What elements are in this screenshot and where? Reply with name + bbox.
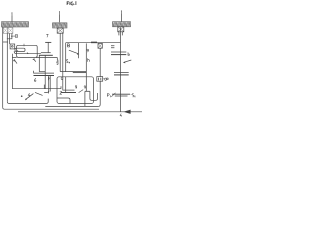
rounded frame RR1 xyxy=(17,45,38,57)
planet shaft a xyxy=(38,55,40,72)
output gear bar P lower xyxy=(115,95,128,97)
clutch box inner mark xyxy=(12,46,14,48)
U right leg to clutch shaft xyxy=(98,81,100,106)
arrow mark under RR1 xyxy=(32,58,34,60)
housing block C (top right) xyxy=(113,22,131,27)
outer bottom housing line xyxy=(3,107,99,109)
tick arrow up xyxy=(47,91,50,94)
leader diagonal 2 xyxy=(35,92,43,95)
label 1 (block A) xyxy=(11,13,14,16)
brake box A1 with X xyxy=(3,28,7,34)
bearing cap on x86 shaft xyxy=(85,90,90,92)
carrier drop 2 xyxy=(49,75,51,91)
center shaft s2 xyxy=(62,33,64,90)
label b right of bars xyxy=(128,52,130,55)
U left leg xyxy=(84,91,86,106)
input gear T bar xyxy=(45,41,51,43)
leader diagonal from 8 xyxy=(69,50,79,54)
tick on RR1 top xyxy=(23,44,25,46)
junction tick xyxy=(27,53,28,54)
short shaft to node xyxy=(11,33,13,35)
dash before S3 xyxy=(130,94,133,96)
housing block A (top left) xyxy=(2,22,29,27)
arrow tail xyxy=(34,59,36,61)
input gear T stem xyxy=(47,42,49,52)
leader diagonal right xyxy=(124,60,132,62)
link shaft to RR1 bottom xyxy=(12,56,16,58)
arrowhead k xyxy=(13,60,15,62)
big frame left edge xyxy=(65,43,67,72)
planet shaft b xyxy=(44,55,46,89)
thick junction segment xyxy=(91,41,97,43)
marks in label box xyxy=(98,78,100,81)
clutch C legs xyxy=(119,32,122,36)
dash to label o xyxy=(103,78,104,80)
carrier link y71.6 xyxy=(60,71,86,73)
label h right of shaft xyxy=(88,58,90,61)
label h left xyxy=(48,77,50,80)
inner cup xyxy=(90,91,98,100)
label 9 in box xyxy=(84,86,86,89)
inner vertical x78.5 xyxy=(78,43,80,59)
housing block B (top center) xyxy=(53,23,68,28)
dash to label B xyxy=(13,35,15,37)
long coupling line y42.7 xyxy=(66,42,121,44)
carrier drop 1 xyxy=(44,75,49,92)
brake box A2 with X xyxy=(8,28,13,34)
interior gear bar lower xyxy=(61,92,76,94)
leader diagonal lower-left xyxy=(26,94,34,100)
small clutch box 10 xyxy=(10,44,15,49)
hook down at end xyxy=(56,58,58,61)
right main shaft xyxy=(120,27,122,111)
gear bar pair 3 lower xyxy=(111,54,126,56)
label P3 xyxy=(107,94,110,98)
tick above RR2 xyxy=(17,50,19,51)
label 5 xyxy=(57,62,59,65)
feed to clutch box 10 xyxy=(9,33,11,44)
output arrowhead xyxy=(124,110,131,114)
leader to P bar xyxy=(111,93,115,97)
link line y57.8 xyxy=(36,57,57,59)
label box 10/11 xyxy=(97,77,103,82)
clutch shaft down xyxy=(99,48,101,76)
gear bar pair 3 upper xyxy=(111,51,126,53)
vertical link x86 xyxy=(85,43,87,91)
lead 1 above block A xyxy=(11,15,13,21)
left mid shaft xyxy=(11,54,13,89)
node dot lower-left xyxy=(21,95,23,97)
left outer shaft xyxy=(2,27,4,107)
lead above block C xyxy=(121,13,123,21)
long link line y53.7 xyxy=(14,51,41,54)
horizontal link y88.7 xyxy=(12,88,61,90)
label 12 dashes xyxy=(111,46,114,48)
gear bar pair 4 lower xyxy=(114,74,129,76)
lower cluster big box xyxy=(57,77,94,104)
clutch box under block B xyxy=(57,28,63,33)
interior gear bar upper xyxy=(63,89,75,91)
label o xyxy=(105,78,107,80)
label 2 xyxy=(60,91,62,94)
link from node down-left xyxy=(7,37,12,39)
clutch box on coupling line xyxy=(98,43,102,48)
label B xyxy=(16,34,18,37)
tick at bars2 left xyxy=(33,71,35,74)
interior corner box xyxy=(57,98,70,104)
output gear bar P upper xyxy=(112,93,130,95)
glyph 9 mid box xyxy=(75,86,77,89)
gear bar pair 2 lower xyxy=(34,75,55,77)
center shaft s1 xyxy=(59,33,61,71)
interior stem xyxy=(65,77,67,93)
main output axis line xyxy=(18,111,142,113)
rounded frame RR2 xyxy=(15,48,25,51)
label 9 right xyxy=(87,49,89,52)
lead above block B xyxy=(59,14,61,22)
gear bar pair 2 upper xyxy=(34,72,55,74)
label O on box top xyxy=(61,77,63,80)
arrowhead right leader xyxy=(123,62,126,64)
gear bar pair 4 upper xyxy=(114,71,129,73)
label 5a xyxy=(67,60,70,63)
label 1 tick at foot xyxy=(57,60,59,63)
label 7 xyxy=(46,34,48,37)
FIG. 1 title xyxy=(67,2,76,5)
node dot xyxy=(11,35,13,37)
arrowhead lower-left xyxy=(25,98,27,100)
label 8 xyxy=(67,44,69,47)
label 1b (block C) xyxy=(120,11,123,14)
gear bar pair 1 lower xyxy=(39,54,53,56)
label a left of bars xyxy=(106,78,108,80)
label 6 xyxy=(34,78,36,81)
label 1a (block B) xyxy=(58,12,61,15)
carrier link xyxy=(39,71,45,73)
tick up at x61 xyxy=(60,86,62,89)
label S3 xyxy=(132,94,135,98)
gear bar pair 1 upper xyxy=(41,52,51,54)
thick carrier bar xyxy=(73,72,87,74)
tick label below axis xyxy=(120,114,122,117)
long link line y106.4 xyxy=(45,105,98,107)
arrowhead xyxy=(77,53,79,55)
inner bottom housing line xyxy=(7,99,48,104)
clutch box under block C xyxy=(118,27,124,32)
wire rung xyxy=(3,41,8,43)
leader in box xyxy=(79,90,84,93)
glyph 4 near leader xyxy=(28,93,30,96)
leader arrow k tail xyxy=(14,59,17,63)
tick above y88.7 xyxy=(43,85,45,89)
left inner shaft xyxy=(6,33,8,101)
